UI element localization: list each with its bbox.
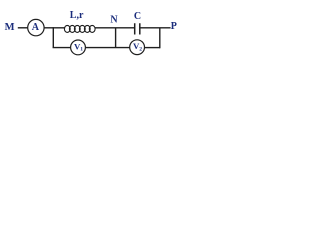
svg-text:N: N [110, 14, 118, 25]
svg-text:L,r: L,r [70, 10, 84, 21]
svg-text:2: 2 [139, 46, 142, 52]
wire bottom rail to V1 [53, 47, 71, 49]
background [0, 0, 195, 69]
wire right vertical branch [159, 28, 161, 49]
wire M to ammeter [18, 27, 28, 29]
voltmeter V1 circle [71, 40, 86, 55]
svg-text:A: A [32, 22, 40, 33]
voltmeter V2 circle [130, 40, 145, 55]
svg-text:M: M [5, 22, 15, 33]
svg-text:1: 1 [80, 47, 83, 53]
wire ammeter to inductor [44, 27, 65, 29]
capacitor C plates [135, 23, 140, 34]
wire left vertical branch [52, 27, 54, 47]
wire V1 to V2 [85, 47, 129, 49]
svg-text:C: C [134, 11, 141, 22]
inductor L,r coil [64, 25, 95, 32]
ammeter A1 circle [28, 19, 44, 35]
wire V2 to right vertical [145, 47, 160, 49]
svg-text:P: P [171, 21, 177, 32]
wire node N vertical branch [115, 28, 117, 48]
wire inductor to capacitor [95, 27, 134, 29]
wire capacitor to P [141, 27, 171, 29]
